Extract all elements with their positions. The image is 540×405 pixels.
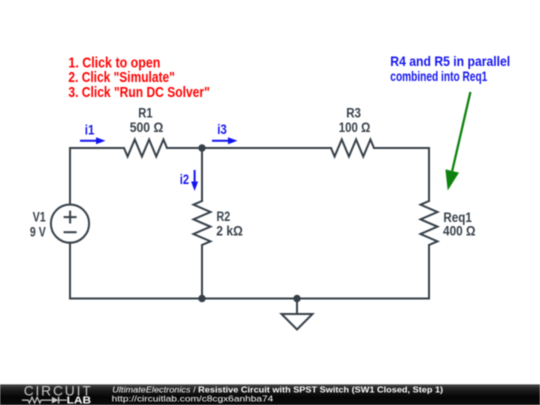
- wire top rail middle segment: [167, 147, 331, 149]
- svg-text:500 Ω: 500 Ω: [130, 120, 164, 135]
- wire right vertical above Req1: [428, 148, 430, 201]
- resistor Req1: [421, 201, 438, 245]
- footer bar: [0, 384, 540, 405]
- resistor R3: [331, 140, 374, 157]
- wire top rail right segment: [374, 147, 429, 149]
- svg-text:100 Ω: 100 Ω: [339, 120, 371, 135]
- svg-text:R4 and R5 in parallel: R4 and R5 in parallel: [390, 53, 510, 69]
- svg-text:i1: i1: [85, 122, 95, 137]
- resistor R1: [124, 140, 167, 157]
- wire middle vertical below R2: [201, 245, 203, 299]
- current arrow i2: [191, 170, 198, 191]
- resistor R2: [194, 201, 211, 245]
- node junction ground: [293, 295, 300, 302]
- wire top rail left segment: [70, 147, 124, 149]
- wire bottom rail: [70, 298, 429, 300]
- svg-text:LAB: LAB: [67, 396, 91, 405]
- current arrow i3: [212, 137, 238, 144]
- svg-text:2 kΩ: 2 kΩ: [216, 223, 243, 238]
- green pointer arrow: [445, 92, 470, 191]
- voltage source V1: [51, 205, 89, 243]
- annotation blue note: [390, 53, 510, 84]
- svg-text:http://circuitlab.com/c8cgx6an: http://circuitlab.com/c8cgx6anhba74: [112, 393, 274, 403]
- logo resistor-diode glyph: [22, 397, 67, 404]
- node junction R1-R2-R3: [198, 144, 205, 151]
- svg-text:combined into Req1: combined into Req1: [390, 68, 487, 84]
- annotation red instructions: [68, 55, 209, 101]
- wire left vertical above V1: [69, 148, 71, 205]
- svg-text:i2: i2: [180, 172, 189, 187]
- wire left vertical below V1: [69, 243, 71, 299]
- svg-text:3. Click "Run DC Solver": 3. Click "Run DC Solver": [68, 84, 209, 101]
- svg-text:9 V: 9 V: [30, 224, 46, 239]
- svg-text:R3: R3: [346, 106, 361, 121]
- wire ground stub: [296, 299, 298, 315]
- svg-text:V1: V1: [33, 210, 47, 225]
- node junction R2-bottom rail: [198, 295, 205, 302]
- svg-text:R2: R2: [217, 209, 231, 224]
- wire middle vertical above R2: [201, 148, 203, 201]
- svg-text:i3: i3: [217, 122, 227, 137]
- svg-text:400 Ω: 400 Ω: [443, 224, 476, 239]
- svg-text:R1: R1: [138, 106, 153, 121]
- current arrow i1: [80, 137, 106, 144]
- ground: [282, 314, 313, 330]
- wire right vertical below Req1: [428, 245, 430, 299]
